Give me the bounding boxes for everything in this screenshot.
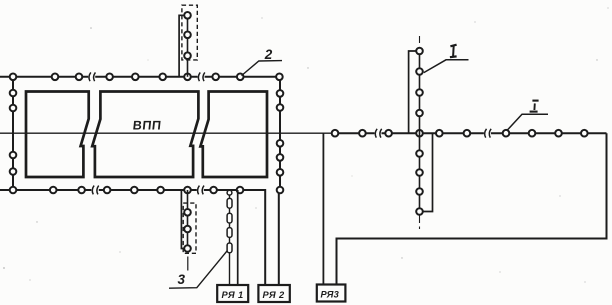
lamp (junction of lower taxiway chain) [184, 187, 191, 194]
lamp (upper taxiway) [184, 12, 191, 19]
svg-text:РЯ3: РЯ3 [321, 289, 340, 299]
svg-text:РЯ 1: РЯ 1 [222, 290, 244, 300]
lamp (pointed to by label 1b) [503, 130, 510, 137]
lamp [277, 140, 284, 147]
dashed enclosure of lower taxiway chain [183, 203, 196, 253]
svg-text:ВПП: ВПП [132, 119, 162, 133]
label 1 (lower) [530, 101, 539, 112]
feeder wire to crossing taxiway chain [409, 51, 417, 133]
upper taxiway chain wire [187, 15, 189, 77]
lamp [237, 187, 244, 194]
leader line of label 2 [242, 61, 283, 76]
lamp [210, 187, 217, 194]
lamp (lower taxiway) [184, 245, 191, 252]
lamp [10, 152, 17, 159]
return wire from approach line to РЯ3 [337, 133, 607, 284]
lamp [106, 74, 113, 81]
svg-text:РЯ 2: РЯ 2 [263, 290, 286, 300]
return wire of crossing taxiway chain [423, 133, 433, 211]
lamp [529, 130, 536, 137]
lamp [464, 130, 471, 137]
lamp [436, 130, 443, 137]
crossing taxiway axis dot bottom [419, 227, 421, 230]
feeder cable from loop to РЯ1 (with couplings) [229, 195, 231, 285]
lamp (lower taxiway) [184, 209, 191, 216]
lamp (crossing taxiway) [416, 89, 423, 96]
svg-text:3: 3 [178, 272, 186, 287]
leader line of label 3 [169, 251, 227, 288]
loop top wire segment b [95, 76, 197, 78]
lamp [277, 154, 284, 161]
lamp [10, 74, 17, 81]
lamp [132, 74, 139, 81]
distribution box РЯ3 [317, 285, 346, 302]
lamp [76, 74, 83, 81]
lamp [50, 187, 57, 194]
loop left edge wire [12, 77, 14, 190]
lamp [10, 168, 17, 175]
lamp [277, 90, 284, 97]
cable break mark top wire left [89, 72, 95, 81]
approach line wire segment c [491, 132, 607, 134]
cable coupling [227, 213, 232, 223]
lamp (crossing of taxiway chain) [416, 130, 423, 137]
leader line of label 1 upper [424, 60, 469, 73]
loop bottom wire segment c + drop to РЯ2 left terminal [204, 190, 265, 285]
lamp [78, 187, 85, 194]
dashed enclosure of upper taxiway chain [182, 5, 197, 60]
lamp [10, 90, 17, 97]
junction nub on bottom wire [227, 190, 232, 195]
lamp (lower taxiway) [184, 226, 191, 233]
lamp (crossing taxiway) [416, 48, 423, 55]
lamp [10, 187, 17, 194]
lamp [131, 187, 138, 194]
svg-text:2: 2 [264, 47, 273, 62]
lamp (crossing taxiway) [416, 188, 423, 195]
lamp (crossing taxiway) [416, 208, 423, 215]
lamp [332, 130, 339, 137]
loop bottom wire segment a [0, 189, 91, 191]
lamp (junction of upper taxiway chain) [184, 74, 191, 81]
lamp (crossing taxiway) [416, 110, 423, 117]
feeder wire from РЯ3 to approach line [322, 133, 324, 284]
loop top wire segment a [0, 76, 88, 78]
lamp (crossing taxiway) [416, 150, 423, 157]
leader line of label 1 lower [508, 114, 548, 130]
cable coupling [227, 243, 232, 253]
approach line wire segment a [332, 132, 375, 134]
cable coupling [227, 228, 232, 238]
lamp (loop bottom-right corner) [277, 187, 284, 194]
lamp (upper taxiway) [184, 52, 191, 59]
lower taxiway axis tick [187, 257, 189, 271]
cable break mark top wire right [198, 72, 204, 81]
distribution box РЯ2 [258, 285, 289, 302]
feeder wire to upper taxiway chain [179, 15, 184, 77]
runway axis centreline (thin) [0, 132, 332, 134]
lamp [385, 130, 392, 137]
lamp [159, 74, 166, 81]
cable break mark bottom wire left [92, 186, 98, 195]
loop bottom wire segment b [99, 189, 197, 191]
lamp [104, 187, 111, 194]
distribution box РЯ1 [217, 285, 248, 302]
lamp [555, 130, 562, 137]
feeder wire to lower taxiway chain [181, 190, 184, 249]
cable break mark approach line left [375, 129, 381, 138]
cable break mark bottom wire right [198, 186, 204, 195]
cable coupling [227, 198, 232, 208]
runway section 2 (middle pavement rectangle ВПП with break edges) [92, 92, 198, 178]
crossing taxiway axis tick bottom [419, 216, 421, 224]
return wire loop to РЯ1 [237, 190, 239, 285]
runway section 1 (left pavement rectangle with break edge) [26, 92, 89, 178]
lower taxiway chain wire [187, 190, 189, 249]
lamp [581, 130, 588, 137]
cable break mark approach line right [485, 129, 491, 138]
lamp [237, 74, 244, 81]
crossing taxiway axis tick top [419, 36, 421, 43]
crossing taxiway chain wire [419, 51, 421, 212]
lamp [157, 187, 164, 194]
loop top wire segment c [205, 76, 280, 78]
lamp [10, 105, 17, 112]
lamp (upper taxiway) [184, 32, 191, 39]
lamp [212, 74, 219, 81]
lamp [52, 74, 59, 81]
lamp [359, 130, 366, 137]
approach line wire segment b [382, 132, 484, 134]
lamp [277, 169, 284, 176]
loop right edge wire + drop to РЯ2 right terminal [279, 77, 280, 285]
lamp [277, 104, 284, 111]
runway section 3 (right pavement rectangle with break edge) [200, 92, 267, 178]
lamp [276, 74, 283, 81]
label 1 (upper) [450, 45, 457, 58]
lamp (crossing taxiway) [416, 169, 423, 176]
lamp (crossing taxiway) [416, 68, 423, 75]
